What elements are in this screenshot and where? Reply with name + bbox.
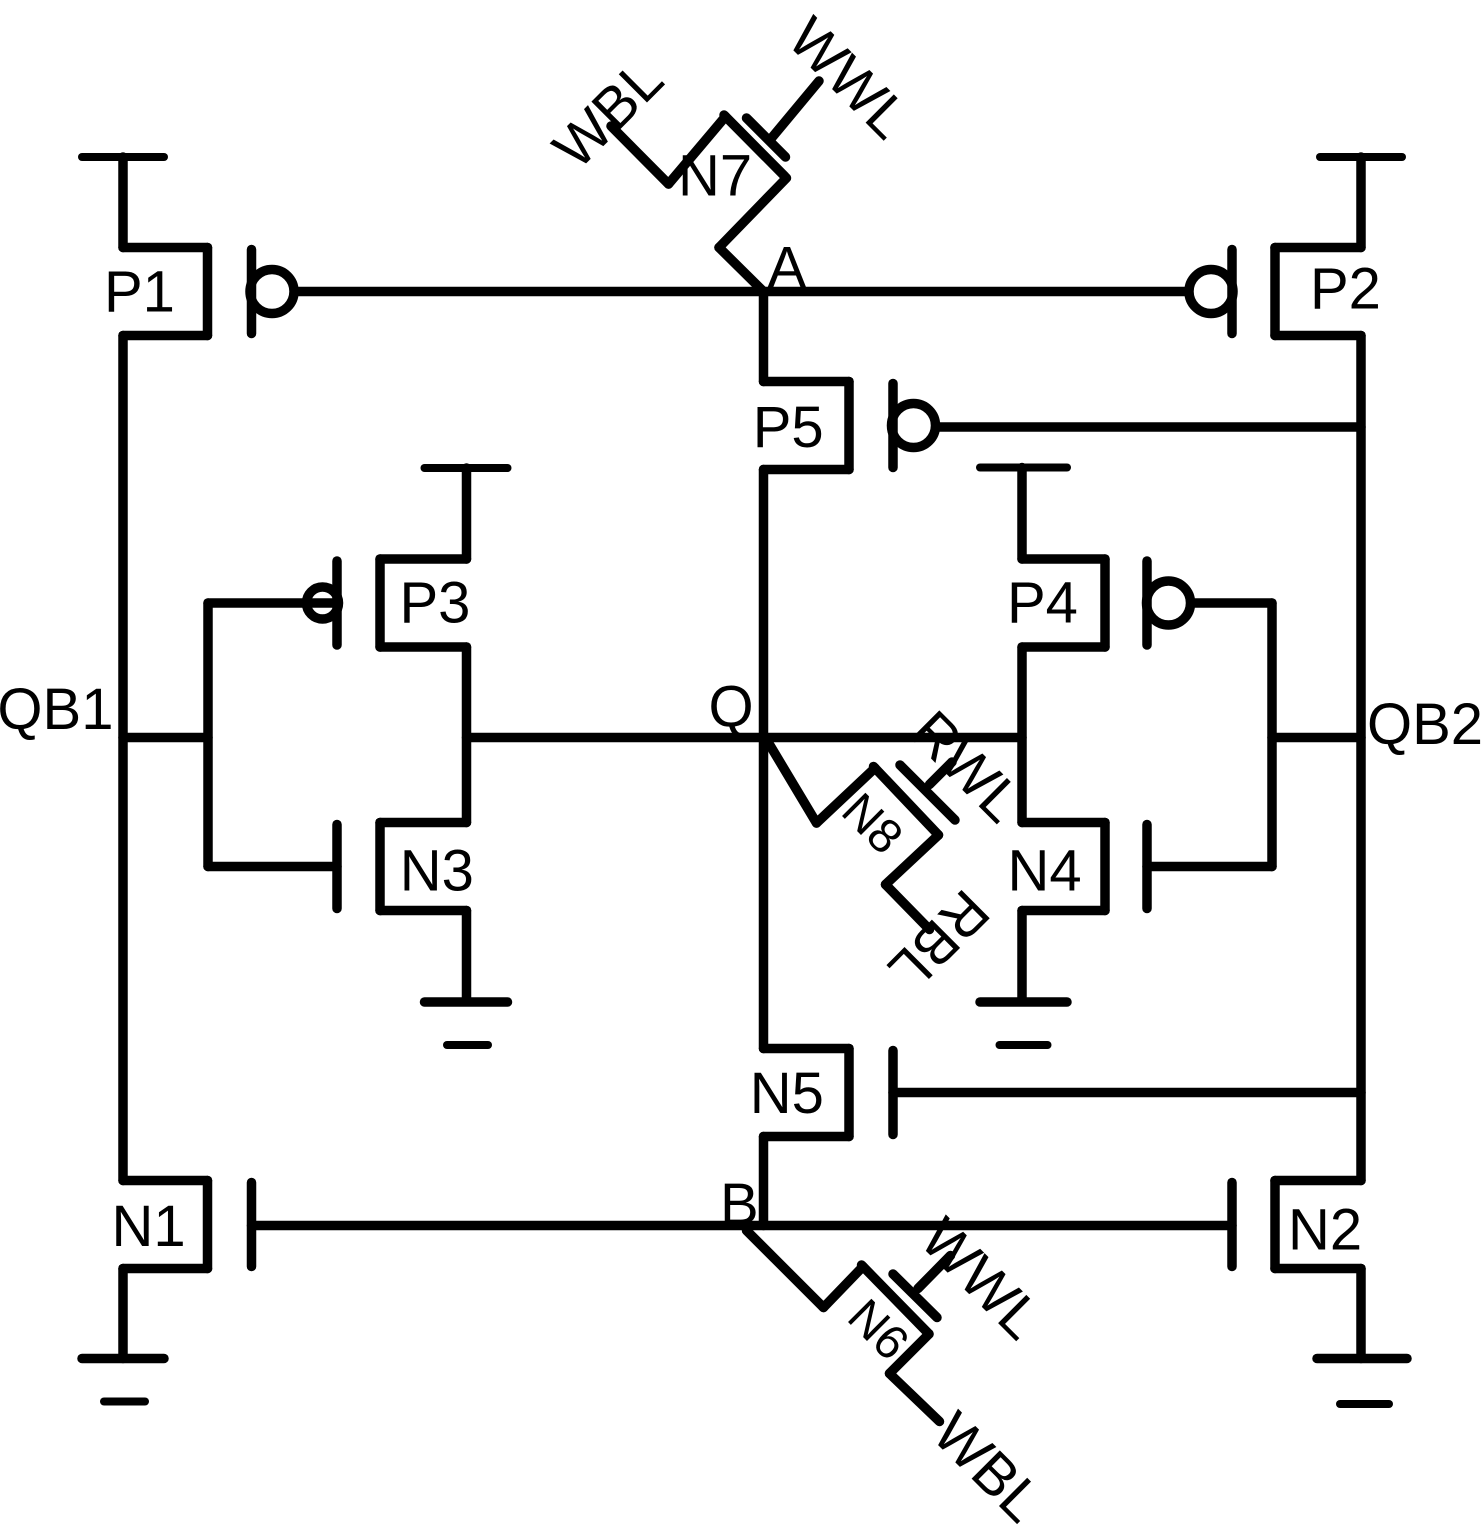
transistor N7 (rotated): WBL stem xyxy=(611,126,669,184)
transistor N1 xyxy=(123,1176,208,1186)
transistor P4 xyxy=(1022,554,1105,564)
transistor N3 xyxy=(332,825,342,909)
wire N5 to node B xyxy=(759,1137,769,1226)
ground (N4) xyxy=(980,997,1067,1007)
wire N1 to ground xyxy=(118,1269,128,1359)
VDD bar (P4 supply) xyxy=(980,464,1067,472)
wire P5 gate to right rail xyxy=(940,422,1362,432)
wire N3 gate xyxy=(208,862,337,872)
wire N7 gate (WWL) xyxy=(772,81,819,138)
wire P4 drain to N4 drain xyxy=(1017,647,1027,823)
VDD bar (P3 supply) xyxy=(425,464,508,472)
wire N8 gate (RWL) xyxy=(930,762,953,785)
svg-text:P5: P5 xyxy=(753,395,824,460)
wire P4 gate xyxy=(1195,598,1272,608)
wire left rail QB1 (P1 drain - N1 drain) xyxy=(118,336,128,1181)
svg-text:N7: N7 xyxy=(678,144,752,209)
transistor P3 xyxy=(332,561,342,645)
svg-text:QB2: QB2 xyxy=(1367,692,1481,757)
VDD bar (P1 supply) xyxy=(82,153,164,161)
wire P1 source stem xyxy=(118,157,128,248)
wire N2 to ground xyxy=(1356,1269,1366,1359)
svg-text:P4: P4 xyxy=(1007,571,1078,636)
P2 gate bubble xyxy=(1189,270,1233,314)
svg-text:B: B xyxy=(720,1172,759,1237)
svg-text:WWL: WWL xyxy=(776,5,922,151)
wire node A horizontal (P1 gate - P2 gate) xyxy=(299,287,1186,297)
ground (N3) xyxy=(425,997,508,1007)
svg-text:Q: Q xyxy=(709,675,754,740)
svg-text:P3: P3 xyxy=(400,571,471,636)
wire node Q xyxy=(467,733,1023,743)
wire P5 drain to N5 drain through node Q xyxy=(759,470,769,1049)
transistor N8 (rotated): stem from Q xyxy=(767,740,817,824)
P5 gate bubble xyxy=(892,404,936,448)
svg-text:P2: P2 xyxy=(1310,257,1381,322)
VDD bar (P2 supply) xyxy=(1320,153,1402,161)
transistor N4 xyxy=(1022,818,1105,828)
wire N4 to ground xyxy=(1017,911,1027,1001)
transistor P1 xyxy=(123,243,208,253)
wire N3 to ground xyxy=(462,911,472,1001)
svg-text:N3: N3 xyxy=(400,839,474,904)
wire P4/N4 gate connector xyxy=(1267,603,1277,867)
transistor N2 xyxy=(1275,1176,1361,1186)
P4 gate bubble xyxy=(1147,581,1191,625)
transistor N6 (rotated): stem from B xyxy=(747,1231,824,1308)
wire P4 source stem xyxy=(1017,468,1027,560)
wire N6 gate (WWL) xyxy=(918,1256,951,1289)
svg-text:QB1: QB1 xyxy=(0,677,113,742)
wire A to P5 source xyxy=(759,292,769,382)
svg-text:A: A xyxy=(768,236,807,301)
wire P3/N3 gate connector xyxy=(203,603,213,867)
ground (N1) xyxy=(82,1354,164,1364)
svg-text:N1: N1 xyxy=(112,1194,186,1259)
P1 gate bubble xyxy=(250,270,294,314)
wire P3 drain to N3 drain xyxy=(462,647,472,823)
P3 gate bubble xyxy=(307,587,339,619)
svg-text:WBL: WBL xyxy=(541,46,676,181)
transistor N5 xyxy=(764,1044,850,1054)
transistor P5 xyxy=(764,377,850,387)
wire QB2 xyxy=(1272,733,1361,743)
svg-text:N2: N2 xyxy=(1288,1198,1362,1263)
svg-text:N4: N4 xyxy=(1008,839,1082,904)
ground (N2) xyxy=(1317,1354,1407,1364)
wire node B (N1 gate - N2 gate) xyxy=(252,1221,1233,1231)
wire N5 gate to right rail xyxy=(893,1088,1361,1098)
transistor P2 xyxy=(1275,243,1361,253)
wire QB1 xyxy=(123,733,208,743)
svg-text:P1: P1 xyxy=(104,260,175,325)
wire N4 gate xyxy=(1147,862,1272,872)
wire right rail QB2 (P2 drain - N2 drain) xyxy=(1356,336,1366,1181)
wire P3 gate xyxy=(208,598,337,608)
wire P2 source stem xyxy=(1356,157,1366,248)
wire P3 source stem xyxy=(462,468,472,559)
svg-text:N5: N5 xyxy=(750,1061,824,1126)
